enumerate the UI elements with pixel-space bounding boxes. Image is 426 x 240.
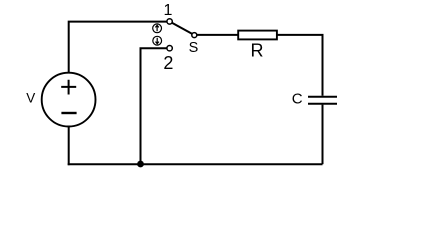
voltage source minus sign bbox=[61, 112, 76, 114]
wire: resistor to top-right corner down to capacitor bbox=[277, 35, 323, 96]
svg-text:R: R bbox=[251, 41, 264, 61]
circled up-arrow indicator bbox=[153, 24, 162, 33]
wire: top-left from source top to switch contact 1 bbox=[69, 22, 167, 73]
svg-text:S: S bbox=[189, 40, 199, 56]
switch common pole terminal circle bbox=[192, 33, 197, 38]
capacitor C top plate bbox=[308, 96, 337, 98]
svg-text:2: 2 bbox=[163, 53, 173, 73]
svg-text:V: V bbox=[26, 90, 35, 105]
circled down-arrow indicator bbox=[153, 36, 162, 45]
capacitor C bottom plate bbox=[308, 103, 337, 105]
switch contact 1 terminal circle bbox=[167, 19, 172, 24]
voltage source V circle bbox=[42, 73, 96, 127]
svg-text:1: 1 bbox=[164, 2, 173, 19]
switch S blade from contact 1 toward common pole bbox=[172, 23, 192, 34]
resistor R body bbox=[238, 31, 277, 40]
wire: switch common to resistor bbox=[197, 34, 238, 36]
junction node dot on bottom rail bbox=[137, 161, 144, 168]
wire: capacitor bottom plate to bottom rail bbox=[322, 105, 324, 165]
wire: voltage source bottom to bottom rail bbox=[68, 127, 70, 166]
wire: bottom rail bbox=[68, 163, 323, 165]
switch contact 2 terminal circle bbox=[167, 46, 172, 51]
wire: switch contact 2 branch down to junction bbox=[141, 48, 167, 164]
svg-text:C: C bbox=[292, 90, 303, 107]
voltage source plus sign bbox=[61, 80, 76, 95]
